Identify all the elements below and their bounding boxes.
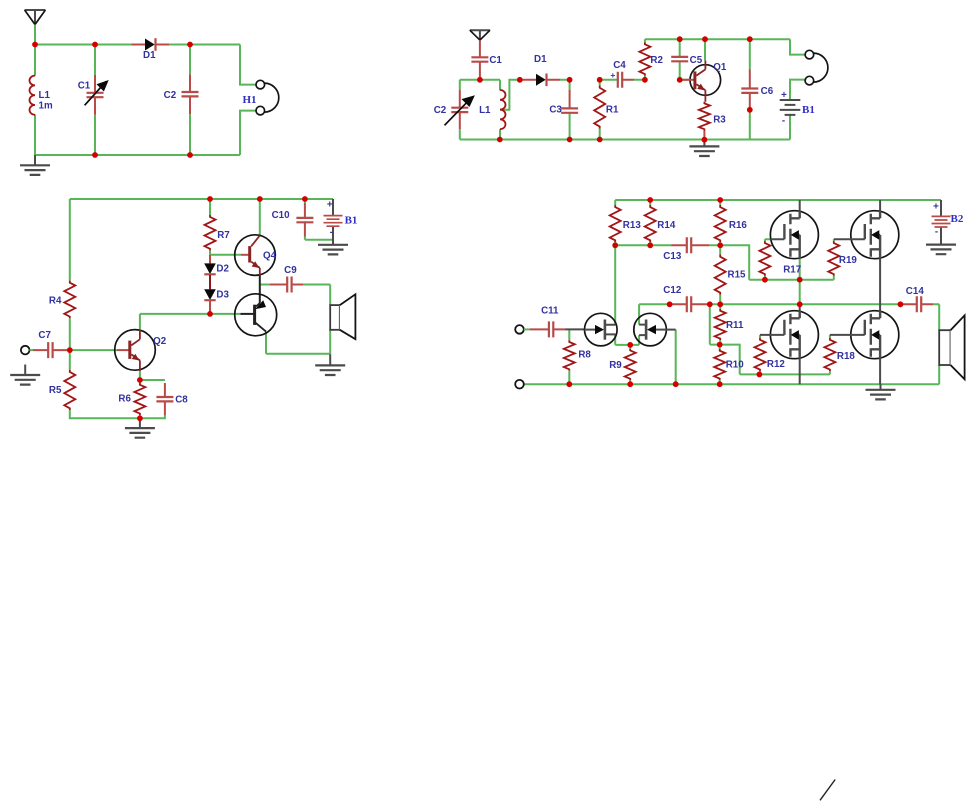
- svg-text:C13: C13: [663, 251, 682, 262]
- svg-text:B1: B1: [802, 104, 815, 116]
- svg-text:L1: L1: [39, 90, 51, 101]
- svg-text:C9: C9: [284, 265, 297, 276]
- svg-text:C5: C5: [690, 55, 703, 66]
- svg-text:R7: R7: [217, 230, 230, 241]
- svg-text:C1: C1: [489, 55, 502, 66]
- svg-text:Q1: Q1: [713, 62, 727, 73]
- svg-text:C8: C8: [175, 394, 188, 405]
- svg-text:B2: B2: [951, 213, 964, 225]
- svg-text:Q2: Q2: [153, 336, 167, 347]
- svg-text:D3: D3: [216, 289, 229, 300]
- svg-text:R3: R3: [713, 115, 726, 126]
- svg-text:R13: R13: [623, 220, 642, 231]
- svg-text:C6: C6: [761, 86, 774, 97]
- svg-text:D1: D1: [143, 50, 156, 61]
- svg-text:+: +: [610, 70, 615, 80]
- svg-text:D2: D2: [216, 264, 229, 275]
- svg-text:R10: R10: [726, 359, 745, 370]
- svg-text:R6: R6: [118, 394, 131, 405]
- svg-text:D1: D1: [534, 54, 547, 65]
- svg-text:C11: C11: [541, 305, 559, 316]
- svg-text:+: +: [933, 202, 939, 213]
- svg-text:R1: R1: [606, 105, 619, 116]
- svg-text:L1: L1: [479, 105, 491, 116]
- svg-text:R4: R4: [49, 295, 62, 306]
- svg-text:R11: R11: [726, 320, 744, 331]
- svg-text:C3: C3: [549, 105, 562, 116]
- svg-text:C2: C2: [164, 90, 177, 101]
- svg-text:C7: C7: [38, 330, 51, 341]
- svg-text:R14: R14: [657, 220, 676, 231]
- svg-text:B1: B1: [345, 215, 358, 227]
- svg-text:+: +: [327, 200, 333, 211]
- svg-text:-: -: [782, 116, 785, 127]
- svg-text:R8: R8: [578, 350, 591, 361]
- svg-text:C12: C12: [663, 285, 682, 296]
- svg-text:R5: R5: [49, 385, 62, 396]
- svg-text:C1: C1: [78, 80, 91, 91]
- svg-text:C2: C2: [434, 105, 447, 116]
- svg-text:R12: R12: [767, 359, 786, 370]
- svg-text:C10: C10: [272, 210, 291, 221]
- svg-text:R19: R19: [839, 255, 858, 266]
- svg-text:C14: C14: [906, 286, 925, 297]
- svg-text:+: +: [781, 90, 787, 101]
- svg-text:H1: H1: [243, 94, 257, 106]
- svg-text:R17: R17: [783, 264, 802, 275]
- svg-text:Q4: Q4: [263, 251, 277, 262]
- svg-text:R15: R15: [728, 270, 747, 281]
- svg-text:R2: R2: [650, 55, 663, 66]
- svg-text:-: -: [330, 227, 333, 238]
- svg-text:R9: R9: [609, 360, 622, 371]
- svg-text:-: -: [935, 227, 938, 238]
- svg-text:R18: R18: [837, 351, 856, 362]
- svg-text:1m: 1m: [39, 101, 53, 112]
- svg-text:R16: R16: [729, 220, 748, 231]
